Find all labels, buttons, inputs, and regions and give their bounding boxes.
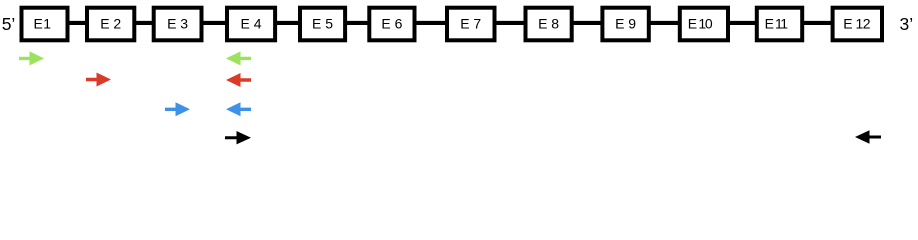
exon E1 — [22, 8, 68, 41]
exon E8 — [526, 8, 572, 41]
primer arrow blue forward (E3) — [165, 102, 190, 116]
exon E2 — [87, 8, 134, 41]
svg-text:E 11: E 11 — [765, 15, 789, 31]
wire E10-E11 — [728, 21, 756, 25]
wire E1-E2 — [68, 21, 87, 25]
exon E6 — [369, 8, 414, 41]
primer arrow red forward (E2) — [86, 73, 111, 87]
primer arrow green forward (E1) — [19, 51, 44, 65]
svg-text:E 6: E 6 — [381, 15, 402, 31]
primer arrow black forward (E4) — [225, 131, 251, 144]
exon E12 — [833, 8, 882, 41]
primer arrow red reverse (E4) — [226, 73, 251, 87]
wire E6-E7 — [415, 21, 446, 25]
exon E10 — [680, 8, 728, 41]
exon E4 — [227, 8, 275, 41]
wire E4-E5 — [276, 21, 299, 25]
primer arrow green reverse (E4) — [226, 51, 251, 65]
svg-text:E 5: E 5 — [312, 15, 333, 31]
svg-text:E 3: E 3 — [167, 15, 188, 31]
svg-text:5’: 5’ — [2, 14, 16, 34]
svg-text:E 10: E 10 — [688, 15, 713, 31]
svg-text:E 9: E 9 — [615, 15, 636, 31]
wire E7-E8 — [495, 21, 525, 25]
svg-text:E 8: E 8 — [538, 15, 559, 31]
svg-text:E 7: E 7 — [460, 15, 481, 31]
exon E5 — [300, 8, 345, 41]
exon E11 — [757, 8, 802, 41]
svg-text:E 2: E 2 — [100, 15, 121, 31]
primer arrow blue reverse (E4) — [226, 102, 251, 116]
wire E3-E4 — [202, 21, 227, 25]
exon E9 — [602, 8, 648, 41]
svg-text:E 12: E 12 — [843, 15, 871, 31]
svg-text:E 4: E 4 — [240, 15, 261, 31]
wire E5-E6 — [346, 21, 368, 25]
exon E7 — [447, 8, 495, 41]
svg-text:E 1: E 1 — [34, 15, 52, 31]
wire E9-E10 — [649, 21, 679, 25]
wire E11-E12 — [802, 21, 832, 25]
wire E2-E3 — [135, 21, 153, 25]
wire E8-E9 — [572, 21, 602, 25]
svg-text:3’: 3’ — [900, 14, 914, 34]
exon E3 — [154, 8, 202, 41]
primer arrow black reverse (E12) — [855, 130, 881, 143]
